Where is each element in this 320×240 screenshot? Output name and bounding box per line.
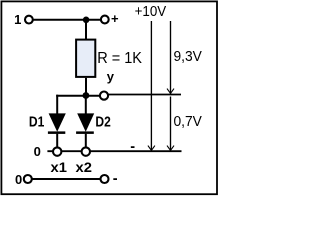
svg-text:y: y — [107, 69, 115, 84]
svg-text:0: 0 — [34, 144, 41, 159]
svg-text:-: - — [113, 171, 118, 187]
svg-text:9,3V: 9,3V — [174, 49, 203, 65]
svg-text:+10V: +10V — [135, 4, 167, 20]
svg-text:0,7V: 0,7V — [174, 114, 203, 130]
svg-text:1: 1 — [14, 12, 21, 27]
svg-text:D2: D2 — [95, 114, 110, 130]
svg-text:-: - — [130, 139, 135, 155]
svg-text:R = 1K: R = 1K — [97, 50, 142, 67]
svg-text:D1: D1 — [29, 114, 44, 130]
svg-text:+: + — [111, 11, 119, 26]
svg-text:0: 0 — [15, 172, 22, 187]
svg-text:x2: x2 — [76, 159, 93, 175]
svg-text:x1: x1 — [51, 159, 68, 175]
